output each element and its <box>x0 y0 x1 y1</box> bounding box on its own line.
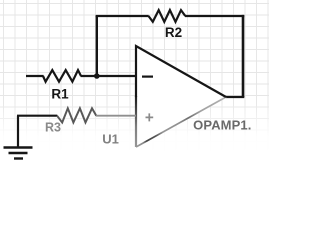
resistor R2 <box>149 10 186 22</box>
svg-text:U1: U1 <box>102 131 119 146</box>
pin plus <box>146 113 154 121</box>
wire feedback right vertical <box>242 15 245 97</box>
wire feedback left vertical <box>96 16 98 76</box>
svg-text:R3: R3 <box>45 121 61 135</box>
wire feedback top left <box>96 15 149 17</box>
ground <box>4 148 33 159</box>
op-amp U1 body fill <box>136 46 226 147</box>
op-amp U1 bottom edge (faded) <box>136 97 226 147</box>
wire ground to R3 <box>17 116 57 147</box>
pin minus <box>142 75 153 77</box>
wire feedback top right <box>185 15 244 17</box>
svg-text:OPAMP1.: OPAMP1. <box>193 118 251 133</box>
wire input to inverting input <box>26 75 136 77</box>
svg-text:R1: R1 <box>51 86 69 101</box>
op-amp U1 body upper <box>136 46 226 97</box>
resistor R3 <box>57 108 96 122</box>
wire output <box>226 96 244 98</box>
wire R3 to plus input <box>96 115 136 117</box>
node junction <box>94 73 100 79</box>
op-amp U1 left edge lower (faded) <box>135 96 137 147</box>
resistor R1 <box>43 70 81 82</box>
svg-text:R2: R2 <box>165 25 182 40</box>
